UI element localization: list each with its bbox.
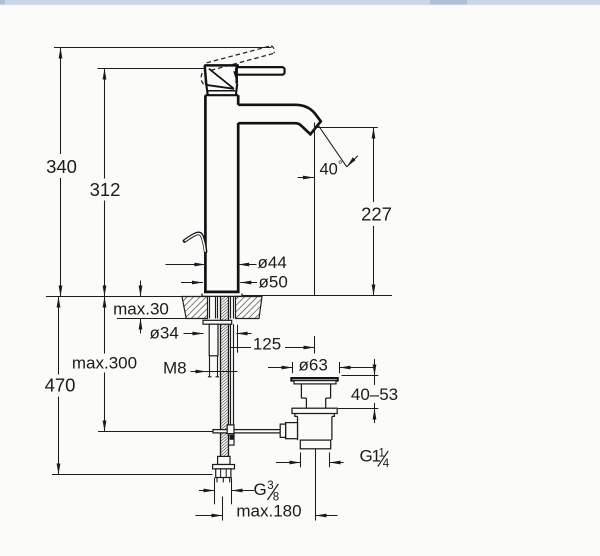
rod clamp on hose (227, 425, 234, 445)
pop-up lift rod hook (185, 233, 206, 251)
pop-up linkage rod (213, 430, 280, 433)
countertop left block (hatched) (182, 297, 208, 319)
G3/8 thread ticks (217, 478, 230, 483)
leader M8 (191, 370, 238, 374)
centerline faucet (222, 497, 224, 521)
spout (238, 105, 321, 135)
dimension max.300 (103, 297, 107, 432)
svg-text:max.300: max.300 (72, 354, 137, 373)
extension line: raised lever top level (54, 47, 272, 49)
svg-text:4: 4 (383, 458, 390, 470)
dimension dia34 (184, 332, 252, 336)
svg-text:ø50: ø50 (259, 273, 288, 292)
dimension dia50 (181, 281, 257, 285)
svg-text:8: 8 (273, 492, 279, 504)
lever raised position (dashed) (201, 46, 274, 85)
faucet shank tubes in deck hole (210, 297, 234, 319)
svg-text:470: 470 (45, 375, 76, 396)
G3/8 compression fitting (213, 456, 235, 477)
dimension 40-53 (338, 359, 378, 423)
extension line: hose end level (52, 474, 213, 476)
svg-text:G: G (254, 480, 267, 499)
mounting locknut under deck (203, 320, 232, 324)
dimension G3/8 (199, 478, 254, 505)
svg-text:max.30: max.30 (113, 300, 169, 319)
dimension dia63 (268, 362, 375, 373)
M8 threaded rod (231, 324, 234, 425)
extension line: deck top left (46, 296, 184, 298)
extension line: basin rim level right (243, 295, 393, 297)
drain bottom rim (300, 440, 330, 449)
svg-text:ø34: ø34 (150, 324, 179, 343)
centerline drain (upper tick) (314, 336, 316, 354)
centerline drain (315, 449, 317, 521)
drain top flange (plug) (291, 378, 338, 384)
drain lower flange (292, 408, 337, 413)
svg-text:ø63: ø63 (299, 356, 328, 375)
extension line: spout outlet vertical (314, 123, 316, 296)
lever handle (236, 67, 285, 75)
handle body / cartridge (204, 65, 239, 95)
base gasket (202, 294, 242, 297)
faucet column body (204, 95, 240, 292)
svg-text:40–53: 40–53 (351, 385, 398, 404)
browser top band (0, 0, 600, 5)
svg-text:312: 312 (90, 179, 121, 200)
dimension 312 (103, 69, 107, 297)
dimension 227 (372, 128, 376, 296)
dimension 470 (57, 297, 61, 475)
extension line: spout outlet level (315, 127, 378, 129)
svg-text:M8: M8 (163, 359, 187, 378)
countertop right block (hatched) (236, 297, 263, 319)
svg-text:227: 227 (361, 204, 392, 225)
dimension max.30 (139, 281, 143, 334)
flexible supply hose (braided) (221, 297, 229, 457)
dimension dia44 (166, 263, 257, 267)
M8 stud legs (208, 356, 219, 377)
M8 stud sleeve (209, 324, 218, 356)
drain body (295, 414, 335, 441)
extension line: deck bottom (117, 318, 208, 320)
dimension max.180 (196, 514, 338, 518)
drain outlet nut (280, 424, 285, 437)
dimension 340 (59, 48, 63, 297)
dimension G1 1/4 (276, 453, 344, 468)
extension line: handle top level (98, 68, 205, 70)
svg-text:3: 3 (267, 480, 273, 492)
dimension labels (45, 156, 399, 521)
extension line: shank right (237, 325, 239, 353)
extension line: pop-up rod level (98, 431, 213, 433)
svg-text:max.180: max.180 (236, 502, 301, 521)
drain side outlet (286, 423, 298, 439)
dimension 125 (230, 346, 315, 350)
dimension 40 degrees (298, 124, 358, 180)
svg-text:ø44: ø44 (258, 253, 287, 272)
svg-text:340: 340 (46, 156, 77, 177)
drain neck (301, 384, 330, 408)
svg-text:125: 125 (253, 335, 281, 354)
